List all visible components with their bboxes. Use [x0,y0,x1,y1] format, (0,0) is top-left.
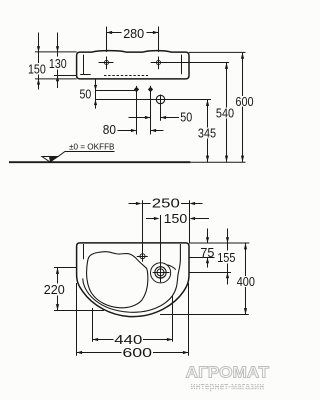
svg-text:50: 50 [80,87,92,102]
svg-text:600: 600 [122,345,152,360]
svg-text:150: 150 [28,62,46,77]
svg-text:220: 220 [44,282,65,297]
svg-text:150: 150 [164,211,188,226]
svg-text:интернет-магазин: интернет-магазин [191,381,265,392]
svg-text:80: 80 [103,122,116,137]
svg-text:75: 75 [200,245,214,260]
svg-text:155: 155 [217,250,235,265]
svg-text:400: 400 [237,274,255,289]
svg-text:280: 280 [123,26,144,41]
svg-text:345: 345 [198,126,216,141]
svg-text:600: 600 [235,94,253,109]
svg-text:АГРОМАТ: АГРОМАТ [186,364,270,381]
svg-text:250: 250 [152,196,180,211]
svg-text:±0 = OKFFB: ±0 = OKFFB [69,143,115,152]
svg-text:540: 540 [216,106,234,121]
svg-text:50: 50 [180,110,192,125]
svg-text:130: 130 [49,56,67,71]
